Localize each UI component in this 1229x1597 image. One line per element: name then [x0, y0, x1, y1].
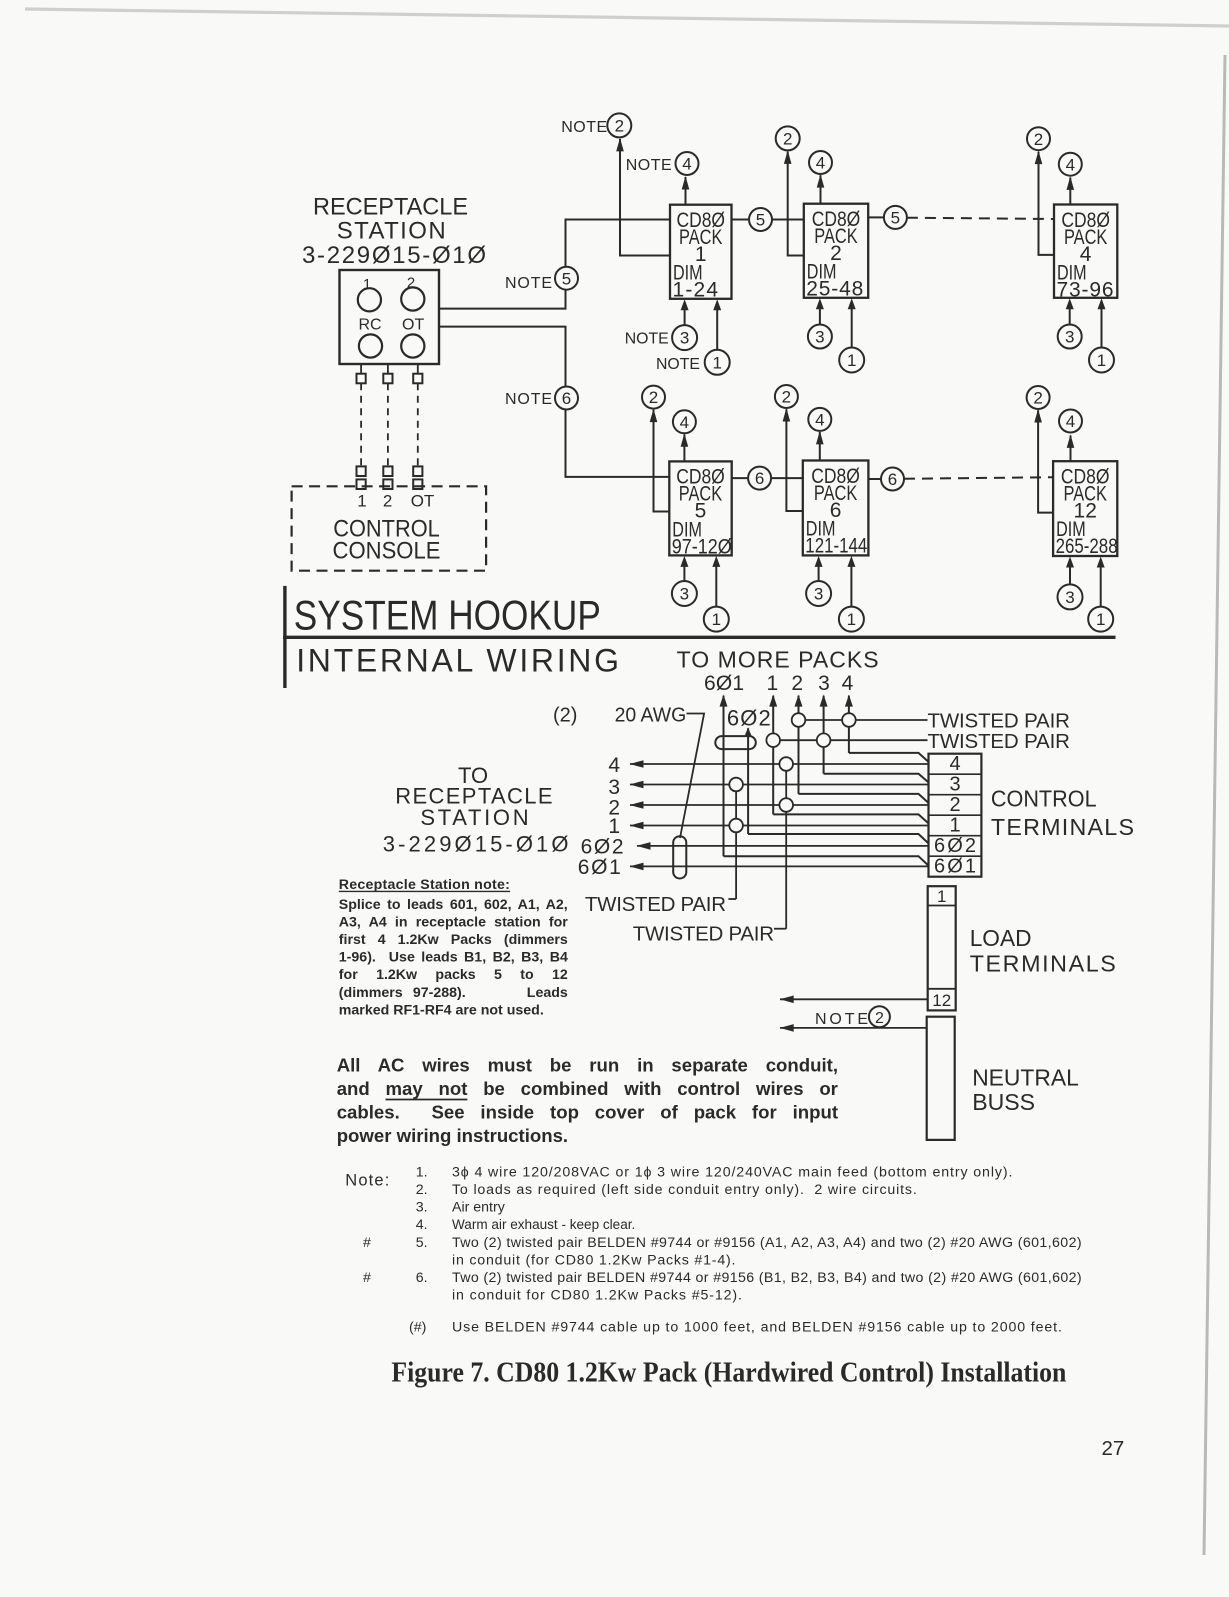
svg-text:#: #	[363, 1270, 371, 1286]
svg-text:25-48: 25-48	[806, 278, 863, 301]
svg-text:2: 2	[783, 130, 792, 149]
svg-text:NOTE: NOTE	[656, 356, 700, 373]
svg-text:NOTE: NOTE	[505, 391, 552, 408]
svg-text:and may not be combined with c: and may not be combined with control wir…	[337, 1078, 838, 1099]
svg-text:NOTE: NOTE	[625, 331, 669, 348]
svg-text:Two (2) twisted pair BELDEN #9: Two (2) twisted pair BELDEN #9744 or #91…	[452, 1270, 1082, 1286]
svg-text:6Ø1: 6Ø1	[934, 855, 976, 877]
svg-text:1: 1	[357, 492, 366, 511]
svg-text:TWISTED PAIR: TWISTED PAIR	[633, 923, 774, 946]
svg-text:NOTE: NOTE	[561, 119, 607, 136]
svg-text:4.: 4.	[416, 1217, 428, 1233]
svg-text:LOAD: LOAD	[970, 925, 1032, 951]
svg-text:6Ø2: 6Ø2	[934, 835, 976, 857]
svg-text:TERMINALS: TERMINALS	[991, 814, 1134, 840]
svg-text:2: 2	[383, 492, 392, 511]
svg-text:TWISTED PAIR: TWISTED PAIR	[928, 730, 1070, 753]
svg-text:in conduit (for CD80 1.2Kw Pac: in conduit (for CD80 1.2Kw Packs #1-4).	[452, 1252, 736, 1268]
svg-text:1: 1	[712, 610, 721, 629]
svg-text:4: 4	[682, 155, 691, 174]
svg-text:cables. See inside top cover: cables. See inside top cover of pack for…	[337, 1102, 838, 1123]
svg-text:2: 2	[875, 1010, 884, 1027]
svg-text:121-144: 121-144	[805, 535, 867, 558]
svg-text:3: 3	[1065, 328, 1074, 347]
svg-text:OT: OT	[411, 492, 435, 511]
svg-text:6: 6	[888, 470, 897, 489]
svg-text:#: #	[363, 1235, 371, 1251]
svg-text:1-24: 1-24	[673, 279, 719, 302]
svg-text:TWISTED PAIR: TWISTED PAIR	[585, 893, 726, 916]
svg-text:3ϕ 4 wire 120/208VAC or 1ϕ 3 w: 3ϕ 4 wire 120/208VAC or 1ϕ 3 wire 120/24…	[452, 1164, 1012, 1180]
svg-text:1: 1	[766, 672, 778, 695]
svg-text:4: 4	[815, 411, 824, 430]
svg-text:5.: 5.	[416, 1235, 428, 1251]
svg-text:3-229Ø15-Ø1Ø: 3-229Ø15-Ø1Ø	[383, 831, 569, 856]
svg-text:STATION: STATION	[420, 805, 528, 830]
svg-text:3: 3	[814, 585, 823, 604]
svg-text:3: 3	[818, 672, 830, 695]
svg-text:97-12Ø: 97-12Ø	[672, 535, 732, 558]
svg-text:1: 1	[847, 610, 856, 629]
svg-text:4: 4	[816, 154, 825, 173]
svg-text:4: 4	[1066, 155, 1075, 174]
svg-text:3-229Ø15-Ø1Ø: 3-229Ø15-Ø1Ø	[302, 242, 486, 269]
svg-text:All AC wires must be run in se: All AC wires must be run in separate con…	[337, 1055, 838, 1076]
svg-text:for 1.2Kw packs 5 to 12: for 1.2Kw packs 5 to 12	[339, 967, 568, 983]
svg-text:(2): (2)	[553, 705, 577, 727]
svg-text:3: 3	[1065, 588, 1074, 607]
svg-text:265-288: 265-288	[1056, 535, 1118, 558]
svg-text:2: 2	[791, 672, 803, 695]
svg-text:3.: 3.	[416, 1200, 428, 1216]
svg-text:(#): (#)	[409, 1320, 426, 1336]
svg-text:1: 1	[937, 887, 946, 906]
svg-text:1: 1	[847, 351, 856, 370]
svg-text:Receptacle Station note:: Receptacle Station note:	[339, 877, 510, 893]
svg-text:Figure 7. CD80 1.2Kw Pack (Har: Figure 7. CD80 1.2Kw Pack (Hardwired Con…	[391, 1358, 1066, 1389]
svg-text:power wiring instructions.: power wiring instructions.	[337, 1125, 568, 1146]
svg-text:STATION: STATION	[337, 218, 446, 245]
svg-text:NOTE: NOTE	[626, 157, 672, 174]
svg-text:2: 2	[1033, 389, 1042, 408]
svg-text:RECEPTACLE: RECEPTACLE	[313, 194, 468, 221]
svg-text:2: 2	[1034, 130, 1043, 149]
svg-text:TERMINALS: TERMINALS	[970, 950, 1116, 976]
svg-text:A3, A4 in receptacle station f: A3, A4 in receptacle station for	[339, 914, 568, 930]
svg-text:2: 2	[615, 117, 624, 136]
svg-text:marked RF1-RF4 are not used.: marked RF1-RF4 are not used.	[339, 1002, 544, 1018]
svg-text:2.: 2.	[416, 1182, 428, 1198]
svg-text:2: 2	[649, 388, 658, 407]
svg-text:6Ø2: 6Ø2	[727, 706, 771, 731]
svg-text:SYSTEM HOOKUP: SYSTEM HOOKUP	[294, 592, 601, 639]
svg-text:To loads as required (left sid: To loads as required (left side conduit …	[452, 1182, 917, 1198]
svg-text:73-96: 73-96	[1057, 279, 1114, 302]
svg-text:1.: 1.	[416, 1164, 428, 1180]
svg-text:CONSOLE: CONSOLE	[333, 538, 441, 565]
svg-text:NOTE: NOTE	[505, 275, 552, 292]
svg-text:NEUTRAL: NEUTRAL	[972, 1065, 1079, 1091]
svg-text:in conduit for CD80 1.2Kw Pack: in conduit for CD80 1.2Kw Packs #5-12).	[452, 1288, 742, 1304]
svg-text:6Ø1: 6Ø1	[704, 672, 744, 695]
svg-text:4: 4	[680, 413, 689, 432]
svg-text:2: 2	[782, 388, 791, 407]
svg-text:4: 4	[608, 754, 620, 777]
svg-text:20 AWG: 20 AWG	[615, 704, 687, 727]
svg-text:1-96). Use leads B1, B2, B3,: 1-96). Use leads B1, B2, B3, B4	[339, 950, 568, 966]
svg-text:6.: 6.	[416, 1270, 428, 1286]
svg-text:2: 2	[949, 794, 960, 816]
svg-text:4: 4	[949, 753, 960, 775]
svg-text:INTERNAL WIRING: INTERNAL WIRING	[296, 643, 619, 679]
svg-text:BUSS: BUSS	[972, 1089, 1035, 1115]
svg-text:(dimmers 97-288). Leads: (dimmers 97-288). Leads	[339, 985, 568, 1001]
svg-text:3: 3	[680, 585, 689, 604]
svg-text:TO MORE PACKS: TO MORE PACKS	[677, 646, 879, 672]
svg-text:27: 27	[1102, 1437, 1125, 1460]
svg-text:6: 6	[755, 469, 764, 488]
svg-text:OT: OT	[402, 317, 424, 334]
svg-text:RC: RC	[359, 317, 382, 334]
svg-text:first 4 1.2Kw Packs (dimmers: first 4 1.2Kw Packs (dimmers	[339, 932, 568, 948]
svg-text:12: 12	[932, 991, 951, 1010]
svg-text:6Ø1: 6Ø1	[578, 856, 621, 879]
svg-text:1: 1	[712, 353, 721, 372]
svg-text:NOTE: NOTE	[815, 1011, 868, 1028]
svg-text:Note:: Note:	[345, 1172, 389, 1190]
svg-text:Use BELDEN #9744 cable up to 1: Use BELDEN #9744 cable up to 1000 feet, …	[452, 1320, 1062, 1336]
svg-text:1: 1	[1096, 610, 1105, 629]
svg-text:1: 1	[949, 814, 960, 836]
svg-text:Splice to leads 601, 602, A1,: Splice to leads 601, 602, A1, A2,	[339, 897, 568, 913]
svg-text:5: 5	[891, 209, 900, 228]
svg-text:5: 5	[562, 269, 571, 288]
svg-text:5: 5	[756, 211, 765, 230]
svg-text:3: 3	[680, 329, 689, 348]
svg-text:Air entry: Air entry	[452, 1200, 506, 1216]
svg-text:Warm air exhaust - keep clear.: Warm air exhaust - keep clear.	[452, 1217, 635, 1233]
svg-text:6: 6	[562, 389, 571, 408]
svg-text:3: 3	[815, 328, 824, 347]
svg-text:4: 4	[842, 672, 854, 695]
svg-text:4: 4	[1066, 412, 1075, 431]
svg-text:CONTROL: CONTROL	[991, 786, 1097, 812]
svg-text:3: 3	[949, 773, 960, 795]
svg-text:Two (2) twisted pair BELDEN #9: Two (2) twisted pair BELDEN #9744 or #91…	[452, 1235, 1082, 1251]
svg-text:1: 1	[1097, 351, 1106, 370]
